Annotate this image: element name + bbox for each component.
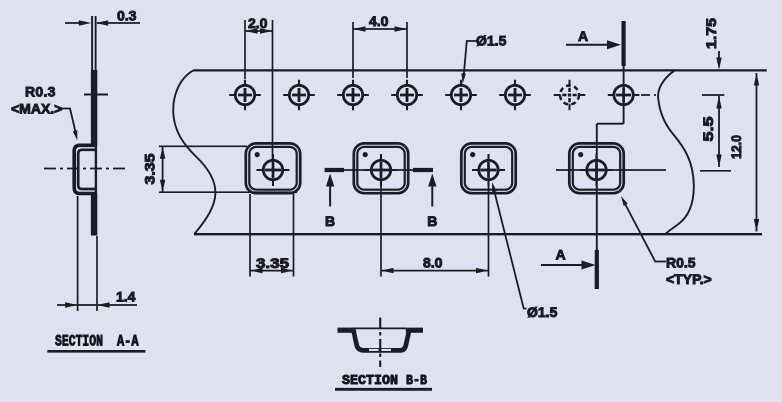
dimension 4.0 [353,13,407,78]
section A-A pocket centerline [44,168,128,170]
pocket P3 outline [461,143,515,193]
sprocket hole 7 (phantom, dashed) [554,80,586,111]
svg-text:A: A [578,28,588,44]
view arrow B (right) [427,174,437,230]
svg-text:12.0: 12.0 [728,135,744,159]
svg-text:1.4: 1.4 [116,289,136,305]
pocket P2 hole [365,154,398,186]
svg-text:3.35: 3.35 [142,153,158,184]
left break line [173,70,215,234]
svg-text:8.0: 8.0 [423,255,443,271]
section line B-B right thick bar [413,168,433,172]
svg-text:A-A: A-A [117,333,139,351]
dimension 8.0 (pocket pitch) [381,180,489,277]
svg-text:2.0: 2.0 [248,15,268,31]
centerline y95 right stub (dim extension) [702,94,724,96]
dimension 3.35 (pocket height) [142,146,298,192]
sprocket hole 5 [445,80,477,111]
sprocket hole 4 [391,80,423,111]
svg-text:4.0: 4.0 [369,13,389,29]
right break line [658,70,694,234]
SECTION B-B title [335,373,432,389]
section line A-A upper thick end [621,21,625,66]
dimension 5.5 [700,96,722,167]
tape bottom edge [194,233,762,235]
pocket P4 outline [569,143,623,193]
sprocket hole 2 [283,80,315,111]
section A-A pocket bump inner [78,150,97,189]
sprocket hole 8 [608,85,640,104]
pocket P3 hole [472,154,505,186]
pocket P2 outline [354,143,408,193]
SECTION A-A title [47,333,145,352]
section A-A pocket bump outer [74,145,97,193]
svg-text:B: B [325,213,335,229]
section B-B right flange [406,328,423,333]
section A-A pocket back plane [95,145,97,194]
pocket P4 hole [580,154,613,186]
label Ø1.5 (sprocket hole dia) [461,33,506,84]
pocket P4 centerline to right [556,169,666,171]
svg-text:<MAX.>: <MAX.> [11,101,62,117]
svg-text:1.75: 1.75 [703,18,719,49]
svg-text:R0.5: R0.5 [666,255,696,271]
svg-text:3.35: 3.35 [256,255,289,271]
dimension 12.0 (tape width) [728,73,759,232]
R0.3 leader [58,109,77,141]
sprocket hole 1 [229,80,261,111]
view arrow A (bottom) [541,247,596,270]
pocket centerline right stub [700,170,731,172]
section B-B centerline [379,318,381,368]
dimension 1.75 [703,18,722,70]
section A-A lower solid bar [91,193,97,235]
sprocket hole 6 [499,80,531,111]
svg-text:<TYP.>: <TYP.> [666,271,712,287]
svg-text:SECTION: SECTION [342,373,398,389]
svg-text:B-B: B-B [406,373,427,389]
section B-B left wall sliver [357,332,360,343]
pocket P1 hole [257,154,290,186]
section line B-B left thick bar [325,168,344,172]
dimension 0.3 (tape thickness) [65,8,140,26]
svg-text:SECTION: SECTION [55,333,103,351]
tape top edge [193,69,767,71]
pocket P4 index dot [578,152,583,157]
svg-text:Ø1.5: Ø1.5 [527,304,558,320]
label R0.3 (MAX.) [11,84,62,117]
section line A-A lower thick end [595,250,599,289]
view arrow A (top) [566,28,621,49]
view arrow B (left) [325,174,335,230]
svg-text:A: A [556,247,566,263]
dimension 2.0 [245,15,273,162]
svg-text:5.5: 5.5 [700,116,716,141]
label R0.5 (TYP.) [621,196,712,287]
section line A-A lower thin [596,124,598,250]
section line B-B thin centerline across pocket P2 [325,169,433,171]
svg-text:Ø1.5: Ø1.5 [476,33,507,49]
section B-B top surface line [352,327,406,329]
pocket P1 outline [246,143,300,193]
section line A-A upper thin [623,66,625,124]
section A-A sprocket hole tick [84,94,108,96]
dimension 1.4 (pocket depth) [57,196,137,311]
dimension 3.35 (pocket width) [250,194,294,277]
section B-B hidden dashes in bottom [369,349,392,351]
section line A-A jog [597,123,624,125]
label Ø1.5 (pocket hole dia) [492,182,558,320]
svg-text:B: B [427,213,437,229]
pocket P2 index dot [363,152,368,157]
pocket P1 index dot [255,152,260,157]
hole 8 centerline to break [641,94,656,96]
section B-B left flange [338,328,353,333]
sprocket hole 3 [337,80,369,111]
section A-A tape upper twin lines [92,16,96,70]
section B-B pocket cup [353,329,409,351]
svg-text:R0.3: R0.3 [25,84,56,100]
section A-A tape upper solid bar [91,70,97,146]
svg-text:0.3: 0.3 [117,8,137,24]
pocket P3 index dot [470,152,475,157]
